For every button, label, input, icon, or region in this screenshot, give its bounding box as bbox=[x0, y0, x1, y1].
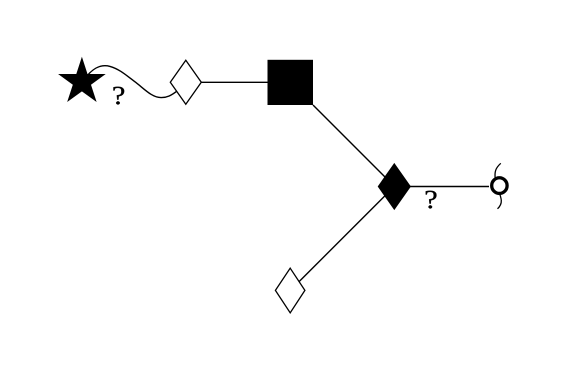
wire square to filled diamond bbox=[313, 105, 394, 186]
node bottom open diamond bbox=[275, 268, 305, 313]
label question mark right bbox=[426, 191, 437, 209]
node filled diamond bbox=[378, 164, 410, 210]
wire filled diamond to bottom diamond bbox=[290, 187, 394, 291]
node reducing end circle bbox=[492, 178, 507, 194]
node filled square bbox=[268, 60, 314, 105]
wire wavy uncertain linkage star to diamond bbox=[84, 66, 177, 98]
wire filled diamond to reducing end circle bbox=[410, 186, 489, 188]
node star bbox=[60, 59, 104, 101]
label question mark left bbox=[113, 87, 124, 105]
wire squiggle at reducing end bbox=[495, 163, 501, 209]
wire diamond to square bbox=[201, 81, 268, 83]
node open diamond bbox=[170, 60, 201, 104]
